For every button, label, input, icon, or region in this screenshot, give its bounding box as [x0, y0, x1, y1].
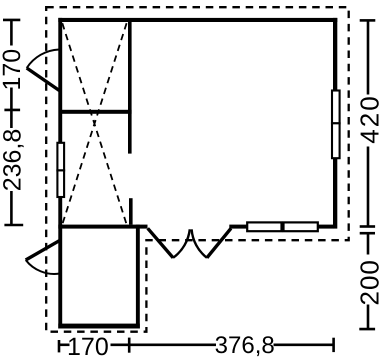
svg-text:170: 170 — [0, 49, 26, 91]
roof overhang dashed outline — [46, 7, 349, 332]
svg-text:236,8: 236,8 — [0, 129, 26, 192]
annex wall bottom — [58, 324, 140, 329]
dimension right line — [359, 20, 375, 329]
door upper-left swing arc — [27, 50, 59, 69]
interior wall vertical upper — [128, 21, 132, 154]
interior wall divider — [62, 110, 132, 114]
wall bottom right segment — [229, 225, 333, 229]
wall top — [58, 18, 337, 22]
double door left arc — [173, 229, 190, 257]
double door right leaf — [207, 228, 231, 257]
svg-text:420: 420 — [355, 94, 385, 143]
window left wall — [57, 143, 64, 197]
door upper-left leaf — [27, 68, 60, 91]
dimension bottom line — [59, 338, 334, 353]
interior wall vertical stub — [129, 198, 133, 224]
window bottom wall double — [247, 222, 318, 231]
double door left leaf — [148, 228, 173, 257]
wall bottom left segment — [58, 225, 147, 229]
svg-text:200: 200 — [355, 259, 385, 305]
cross brace X dashed — [62, 23, 126, 224]
wall left — [58, 18, 62, 329]
wall right — [333, 18, 337, 229]
svg-text:376,8: 376,8 — [215, 332, 275, 359]
door annex leaf — [26, 241, 60, 260]
annex wall right — [136, 225, 140, 329]
door annex swing arc — [26, 260, 59, 274]
double door right arc — [192, 229, 207, 257]
window right wall — [332, 91, 340, 159]
svg-text:170: 170 — [67, 333, 109, 361]
dimension left line — [3, 20, 23, 226]
